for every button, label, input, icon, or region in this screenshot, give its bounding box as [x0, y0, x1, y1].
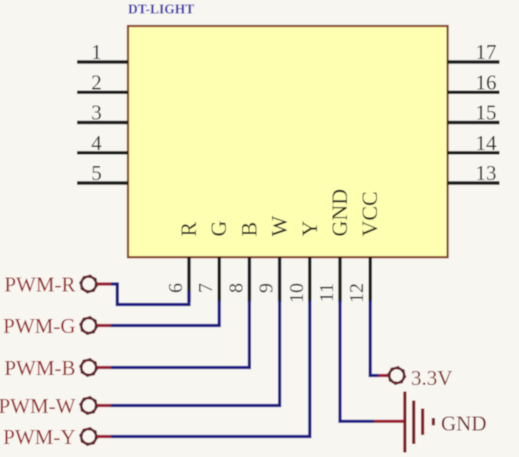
pin 12 lead	[369, 257, 372, 302]
svg-text:PWM-Y: PWM-Y	[3, 425, 75, 449]
pin 13 lead	[448, 181, 500, 184]
svg-text:8: 8	[225, 283, 247, 293]
wire PWM-W to pin 9	[111, 301, 280, 406]
power port circle 3.3V	[389, 368, 405, 384]
svg-text:15: 15	[476, 101, 497, 125]
svg-text:10: 10	[286, 283, 308, 303]
svg-text:14: 14	[476, 131, 498, 155]
svg-text:1: 1	[91, 40, 102, 64]
wire PWM-G to pin 7	[111, 301, 219, 326]
pin 15 lead	[448, 121, 500, 124]
ground symbol bar 4	[432, 418, 435, 425]
stub PWM-W	[97, 404, 111, 407]
stub PWM-B	[97, 366, 111, 369]
wire PWM-Y to pin 10	[111, 301, 310, 437]
stub PWM-Y	[97, 435, 111, 438]
pin 16 lead	[448, 91, 500, 94]
pin 3 lead	[77, 121, 128, 124]
pin 2 lead	[77, 91, 128, 94]
wire PWM-B to pin 8	[111, 301, 249, 368]
port circle PWM-R	[81, 276, 97, 292]
port circle PWM-G	[81, 318, 97, 334]
pin 10 lead	[308, 257, 311, 302]
svg-text:11: 11	[316, 283, 338, 302]
stub GND	[374, 420, 404, 423]
pin 4 lead	[77, 151, 128, 154]
stub PWM-G	[97, 324, 111, 327]
ground symbol bar 3	[421, 409, 424, 436]
svg-text:13: 13	[476, 161, 497, 185]
svg-text:2: 2	[91, 70, 102, 94]
pin 5 lead	[77, 181, 128, 184]
port circle PWM-W	[81, 398, 97, 414]
svg-text:PWM-W: PWM-W	[0, 394, 76, 418]
svg-text:R: R	[176, 222, 201, 237]
ground symbol bar 1	[403, 392, 406, 453]
svg-text:5: 5	[91, 161, 102, 185]
pin 1 lead	[77, 60, 128, 63]
wire pin 12 to 3.3V	[370, 301, 378, 376]
svg-text:4: 4	[91, 131, 102, 155]
wire pin 11 to GND	[340, 301, 374, 422]
svg-text:GND: GND	[441, 412, 487, 436]
svg-text:12: 12	[346, 283, 368, 303]
ground symbol bar 2	[412, 401, 415, 445]
svg-text:DT-LIGHT: DT-LIGHT	[128, 2, 194, 17]
svg-text:W: W	[267, 216, 292, 237]
svg-text:Y: Y	[297, 221, 322, 237]
svg-text:9: 9	[256, 283, 278, 293]
svg-text:PWM-R: PWM-R	[4, 273, 75, 297]
component U? DT-LIGHT body	[128, 26, 448, 257]
port circle PWM-Y	[81, 429, 97, 445]
svg-text:3: 3	[91, 101, 102, 125]
svg-text:PWM-B: PWM-B	[4, 356, 75, 380]
svg-text:G: G	[206, 221, 231, 237]
port circle PWM-B	[81, 360, 97, 376]
svg-text:17: 17	[476, 40, 497, 64]
pin 9 lead	[278, 257, 281, 302]
pin 6 lead	[187, 257, 190, 302]
svg-text:7: 7	[195, 283, 217, 293]
svg-text:6: 6	[165, 283, 187, 293]
svg-text:16: 16	[476, 70, 497, 94]
svg-text:VCC: VCC	[357, 191, 382, 236]
stub 3.3V	[379, 374, 389, 377]
svg-text:3.3V: 3.3V	[411, 366, 452, 390]
pin 14 lead	[448, 151, 500, 154]
svg-text:B: B	[236, 222, 261, 237]
stub PWM-R	[97, 282, 111, 285]
svg-text:PWM-G: PWM-G	[3, 314, 75, 338]
pin 7 lead	[217, 257, 220, 302]
pin 8 lead	[248, 257, 251, 302]
svg-text:GND: GND	[327, 189, 352, 237]
wire PWM-R to pin 6	[111, 284, 189, 305]
pin 17 lead	[448, 60, 500, 63]
pin 11 lead	[338, 257, 341, 302]
